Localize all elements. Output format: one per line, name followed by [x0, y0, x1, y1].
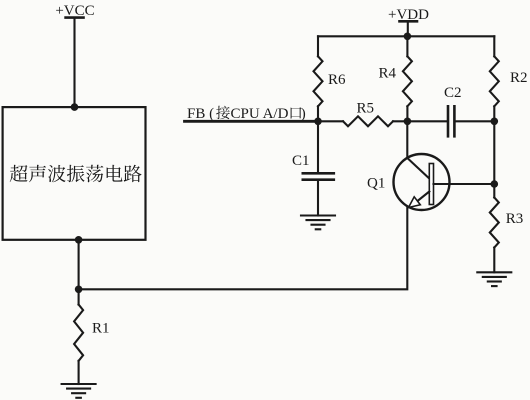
- wire base: [434, 183, 495, 185]
- resistor R2: [490, 36, 528, 121]
- wire box bottom down: [78, 240, 80, 289]
- label FB net: [187, 106, 306, 122]
- svg-text:R6: R6: [328, 72, 346, 88]
- node FB/R6/C1: [314, 118, 322, 126]
- ground R3: [477, 272, 511, 286]
- power +VDD: [388, 7, 429, 36]
- svg-text:R2: R2: [510, 70, 528, 86]
- ground C1: [301, 216, 335, 230]
- svg-text:CPU A/D: CPU A/D: [231, 106, 289, 122]
- svg-text:R1: R1: [92, 321, 110, 337]
- resistor R4: [379, 36, 412, 121]
- svg-text:R5: R5: [357, 101, 375, 117]
- node C2/R2 rail: [491, 118, 499, 126]
- resistor R1: [74, 289, 109, 384]
- wire top rail: [318, 35, 494, 37]
- node R1 top: [75, 286, 83, 294]
- node R4/R5/C2/collector: [404, 118, 412, 126]
- ground R1: [62, 384, 96, 398]
- capacitor C1: [292, 121, 334, 215]
- svg-text:C2: C2: [444, 85, 462, 101]
- node box top: [71, 103, 79, 111]
- svg-text:Q1: Q1: [367, 176, 385, 192]
- node base/R3: [491, 180, 499, 188]
- wire bottom horizontal to emitter: [79, 207, 408, 289]
- wire VCC to box: [73, 18, 75, 108]
- svg-text:): ): [301, 106, 306, 122]
- node box bottom: [75, 236, 83, 244]
- capacitor C2: [407, 85, 494, 136]
- wire collector: [406, 121, 408, 158]
- node VDD rail: [404, 33, 412, 41]
- wire FB: [185, 120, 319, 123]
- wire right rail: [493, 121, 495, 184]
- resistor R3: [490, 184, 524, 272]
- svg-text:R3: R3: [506, 211, 524, 227]
- resistor R5: [318, 101, 407, 127]
- resistor R6: [314, 36, 347, 121]
- oscillator block 超声波振荡电路: [3, 107, 146, 240]
- svg-text:C1: C1: [292, 153, 310, 169]
- transistor Q1: [367, 154, 450, 210]
- svg-text:FB (: FB (: [187, 106, 214, 122]
- power +VCC: [55, 3, 94, 19]
- svg-text:R4: R4: [379, 66, 397, 82]
